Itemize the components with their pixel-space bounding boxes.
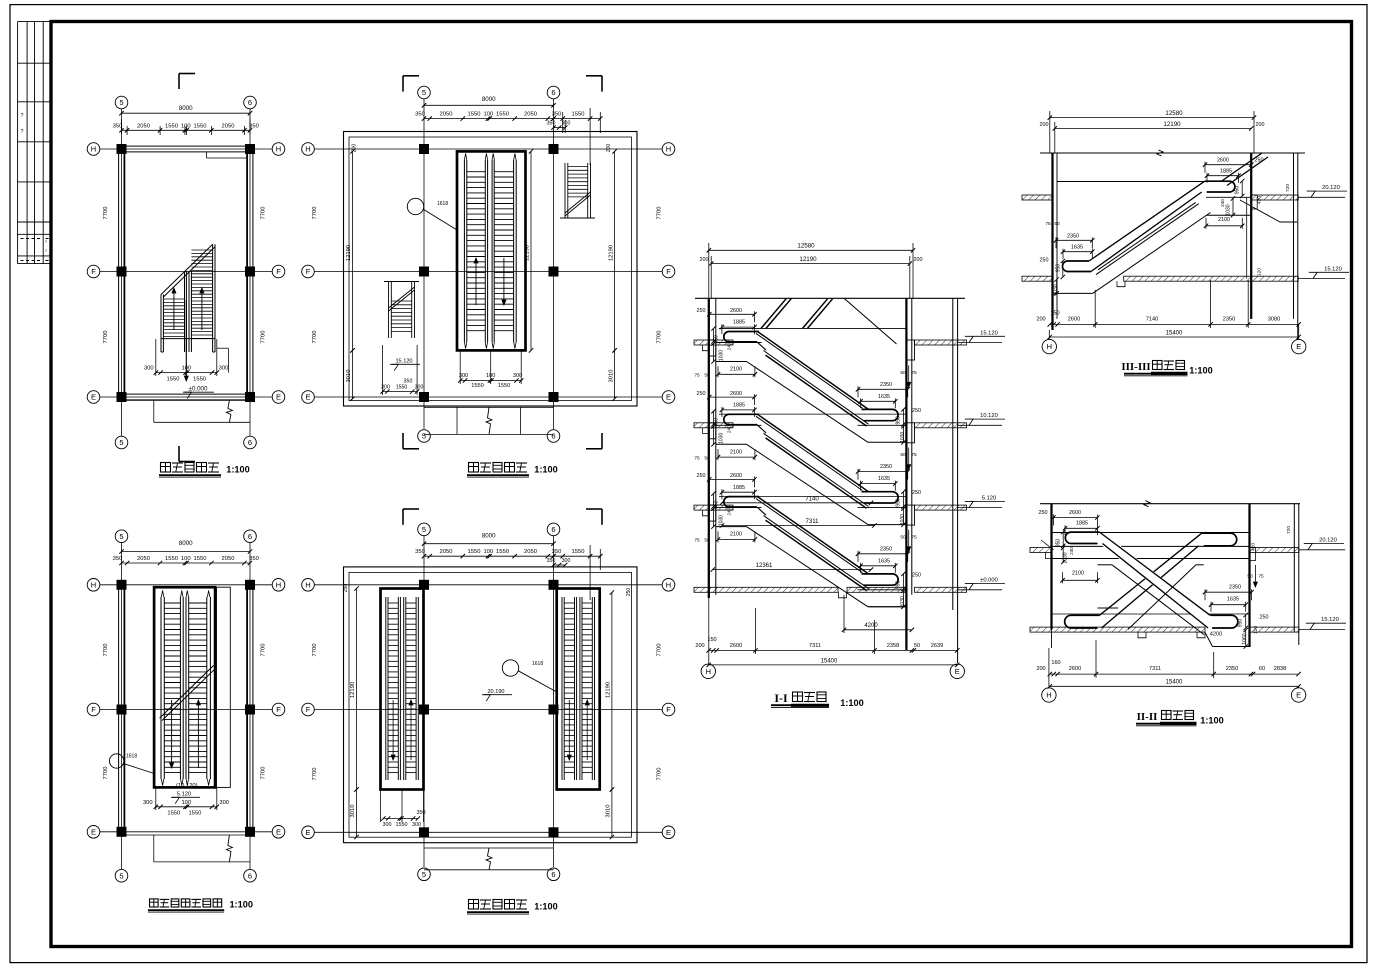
plan1 stair lower dim chain (156, 372, 217, 374)
I-I far right wall (952, 298, 954, 610)
svg-text:2838: 2838 (1274, 666, 1286, 672)
svg-text:20.190: 20.190 (487, 689, 504, 695)
II right wall (1248, 504, 1250, 647)
svg-text:2050: 2050 (440, 112, 453, 118)
svg-text:E: E (91, 393, 96, 402)
II loop upper-left (1065, 532, 1099, 543)
plan4 leader circle (407, 198, 423, 214)
svg-text:250: 250 (912, 408, 921, 414)
svg-text:H: H (305, 145, 310, 154)
plan5 left shaft lower dims (380, 790, 382, 823)
svg-text:5: 5 (422, 525, 426, 534)
svg-text:2050: 2050 (137, 556, 150, 562)
svg-text:100: 100 (181, 556, 191, 562)
svg-text:12190: 12190 (346, 245, 352, 261)
plan5 right shaft treads (564, 602, 574, 604)
svg-text:1550: 1550 (165, 556, 178, 562)
svg-text:250: 250 (697, 473, 706, 479)
escalator upper newel connector (757, 507, 766, 515)
svg-text:250: 250 (343, 584, 349, 593)
plan5 left escalator shaft (381, 589, 424, 790)
svg-text:2600: 2600 (730, 391, 742, 397)
plan23 escalator treads (164, 602, 180, 604)
svg-text:E: E (305, 828, 310, 837)
svg-text:7700: 7700 (261, 644, 267, 657)
svg-text:7700: 7700 (312, 768, 318, 781)
svg-text:1550: 1550 (194, 123, 207, 129)
svg-text:75: 75 (694, 373, 700, 379)
plan5 dim chain (424, 555, 554, 557)
svg-text:2100: 2100 (730, 532, 742, 538)
svg-text:200: 200 (1036, 317, 1045, 323)
I-I roof line (695, 297, 965, 299)
escalator upper handrail loop (724, 497, 759, 507)
svg-text:75: 75 (911, 534, 917, 540)
escalator upper newel connector (757, 425, 766, 433)
svg-text:720: 720 (1285, 184, 1291, 192)
plan4 bottom strip (424, 406, 554, 408)
II loop lower-right (1210, 615, 1238, 628)
svg-text:350: 350 (547, 558, 556, 564)
plan23 walls (118, 585, 120, 832)
svg-text:75: 75 (694, 538, 700, 544)
plan5 right shaft rails (561, 597, 563, 780)
plan4 shaft bottom dims (460, 380, 521, 382)
plan4 grid circles (418, 86, 431, 99)
plan1 stair cut lines (161, 244, 213, 294)
svg-text:7700: 7700 (103, 207, 109, 220)
svg-text:7700: 7700 (312, 331, 318, 344)
II far right wall (1293, 504, 1295, 632)
svg-text:7311: 7311 (1149, 666, 1161, 672)
svg-text:950: 950 (1056, 539, 1062, 548)
svg-text:2600: 2600 (1217, 157, 1229, 163)
plan4 grid line 6 (553, 99, 555, 429)
II guard line lower (1052, 613, 1250, 615)
svg-text:1618: 1618 (126, 754, 137, 760)
svg-text:250: 250 (1255, 157, 1264, 163)
svg-text:2050: 2050 (137, 123, 150, 129)
svg-text:F: F (276, 267, 281, 276)
svg-text:2100: 2100 (730, 449, 742, 455)
svg-text:E: E (276, 827, 281, 836)
svg-text:1550: 1550 (496, 112, 509, 118)
plan1 grid line 6 (249, 109, 251, 436)
svg-text:350: 350 (113, 123, 123, 129)
svg-text:E: E (666, 393, 671, 402)
plan1 stair bottom edge (161, 338, 215, 340)
svg-text:E: E (955, 667, 960, 676)
svg-text:2050: 2050 (440, 549, 453, 555)
svg-text:E: E (666, 828, 671, 837)
plan5 grid circles (418, 523, 431, 536)
svg-text:2600: 2600 (730, 308, 742, 314)
svg-text:1635: 1635 (1227, 597, 1239, 603)
svg-text:E: E (305, 393, 310, 402)
plan23 escalator rails (160, 597, 162, 779)
svg-text:20.120: 20.120 (1319, 538, 1337, 544)
svg-text:7700: 7700 (103, 644, 109, 657)
svg-text:F: F (91, 705, 96, 714)
svg-text:15400: 15400 (1166, 330, 1183, 336)
III escalator lower loop (1062, 261, 1091, 272)
svg-text:±0.000: ±0.000 (980, 578, 998, 584)
plan4 small stair top-right (564, 163, 566, 218)
svg-text:12361: 12361 (756, 563, 773, 569)
svg-text:1885: 1885 (1220, 168, 1232, 174)
svg-text:7700: 7700 (657, 768, 663, 781)
plan23 escalator shaft (154, 587, 215, 787)
svg-text:1885: 1885 (1076, 521, 1088, 527)
II pocket below 15.120 right (1205, 632, 1213, 646)
svg-text:±0.000: ±0.000 (189, 385, 208, 392)
plan23 grid line 5 (121, 543, 123, 869)
plan4 escalator rails (463, 160, 465, 342)
svg-text:200: 200 (606, 144, 612, 153)
svg-text:6: 6 (248, 871, 252, 880)
II escalator diagonal LR-UL (1102, 538, 1210, 622)
svg-text:7700: 7700 (657, 644, 663, 657)
svg-text:240: 240 (727, 507, 732, 515)
escalator floor edges (716, 507, 762, 509)
III floor slab 15.120 (1022, 276, 1053, 281)
svg-text:1:100: 1:100 (1200, 716, 1224, 726)
svg-text:950: 950 (1238, 619, 1244, 628)
I-I wall beam under slab (709, 505, 716, 521)
svg-text:100: 100 (483, 112, 493, 118)
svg-text:2050: 2050 (222, 556, 235, 562)
II left wall (1050, 504, 1052, 630)
svg-text:1885: 1885 (733, 485, 745, 491)
svg-text:350: 350 (249, 123, 259, 129)
I-I upper flight stubs (761, 298, 787, 328)
svg-text:2050: 2050 (524, 549, 537, 555)
svg-text:300: 300 (562, 558, 571, 564)
svg-text:250: 250 (912, 572, 921, 578)
plan5 grid lines H F E (315, 584, 663, 586)
svg-text:300: 300 (143, 800, 153, 806)
plan4 columns (419, 144, 429, 154)
II loop lower-left (1065, 615, 1100, 628)
plan23 grid line 6 (249, 543, 251, 869)
svg-text:1550: 1550 (572, 112, 585, 118)
plan5 section cut marks (402, 509, 404, 525)
plan1 dim chain 350/2050/1550/100/1550/2050/350 (122, 129, 251, 131)
svg-text:50: 50 (914, 643, 920, 649)
svg-text:6: 6 (551, 432, 555, 441)
plan1 columns (117, 144, 127, 154)
I-I wall beam under slab (709, 340, 716, 356)
plan5 bottom strip (424, 847, 554, 849)
svg-text:50: 50 (704, 373, 710, 379)
plan23 lower dim chain (156, 806, 217, 808)
svg-text:300: 300 (383, 822, 392, 828)
svg-text:250: 250 (697, 391, 706, 397)
svg-text:300: 300 (412, 822, 421, 828)
svg-text:2350: 2350 (1229, 585, 1241, 591)
svg-text:2050: 2050 (222, 123, 235, 129)
svg-text:1550: 1550 (471, 383, 483, 389)
plan4 grid line 5 (423, 99, 425, 429)
plan1 grid circles (115, 96, 128, 109)
svg-text:950: 950 (1055, 264, 1061, 273)
II level flags (1299, 549, 1345, 551)
plan5 title (469, 900, 479, 910)
I-I left wall clip (703, 510, 709, 516)
II escalator diagonal LL-UR (1100, 533, 1202, 615)
svg-text:250: 250 (1039, 510, 1048, 516)
plan1 grid line F (100, 271, 272, 273)
svg-text:300: 300 (144, 366, 154, 372)
svg-text:7700: 7700 (312, 207, 318, 220)
svg-text:5.120: 5.120 (982, 495, 997, 501)
svg-text:8000: 8000 (482, 533, 496, 540)
svg-text:150: 150 (1050, 311, 1059, 317)
plan4 escalator rail tips (464, 154, 466, 161)
svg-text:1060: 1060 (1242, 633, 1248, 644)
II wall extension to circle (1048, 648, 1050, 688)
plan1 stair treads right run (191, 249, 212, 251)
plan23 leader circle (109, 754, 123, 768)
svg-text:1550: 1550 (165, 123, 178, 129)
svg-text:120: 120 (1253, 626, 1259, 634)
svg-text:15.120: 15.120 (395, 358, 412, 364)
svg-text:7700: 7700 (312, 644, 318, 657)
III grid circles (1042, 339, 1056, 353)
escalator floor edges (716, 342, 762, 344)
plan4 title (469, 463, 479, 473)
svg-text:H: H (1047, 342, 1052, 351)
svg-text:1550: 1550 (167, 811, 180, 817)
svg-text:950: 950 (896, 498, 902, 507)
svg-text:6: 6 (551, 870, 555, 879)
III floor slab 20.120 (1022, 195, 1053, 200)
svg-text:50: 50 (900, 370, 906, 376)
I-I wall beam under slab (709, 423, 716, 439)
svg-text:12190: 12190 (608, 245, 614, 261)
plan23 cut lines (160, 665, 214, 718)
svg-text:200: 200 (695, 643, 704, 649)
plan1 section cut mark bottom (178, 446, 180, 462)
svg-text:100: 100 (483, 549, 493, 555)
svg-text:1550: 1550 (468, 549, 481, 555)
svg-text:6: 6 (551, 88, 555, 97)
svg-text:160: 160 (1051, 660, 1060, 666)
svg-text:H: H (706, 667, 711, 676)
svg-text:1:100: 1:100 (534, 465, 558, 475)
svg-text:200: 200 (700, 257, 709, 263)
svg-text:420: 420 (1257, 196, 1263, 204)
svg-text:2600: 2600 (1068, 317, 1080, 323)
svg-text:2350: 2350 (880, 464, 892, 470)
plan23 bottom strip (122, 834, 251, 836)
svg-text:15.120: 15.120 (980, 330, 998, 336)
svg-text:1550: 1550 (468, 112, 481, 118)
svg-text:5: 5 (422, 432, 426, 441)
plan23 escalator arrows (171, 700, 173, 768)
svg-text:H: H (666, 580, 671, 589)
III level flags (1298, 196, 1345, 198)
plan1 interior wall corner (206, 152, 208, 158)
plan4 stair lower dims (383, 391, 418, 393)
plan1 title (161, 463, 171, 473)
plan1 walls (118, 149, 120, 397)
svg-text:1550: 1550 (498, 383, 510, 389)
escalator truss soffit (716, 361, 747, 363)
svg-text:3010: 3010 (350, 805, 356, 818)
svg-text:2350: 2350 (1223, 317, 1235, 323)
svg-text:1635: 1635 (878, 394, 890, 400)
plan1 grid line E (100, 396, 272, 398)
escalator diagonal band (758, 497, 869, 574)
escalator lower handrail loop (862, 492, 899, 503)
plan1 stair treads left run (163, 298, 184, 300)
svg-text:350: 350 (552, 112, 562, 118)
svg-text:1618: 1618 (437, 201, 448, 207)
svg-text:2100: 2100 (1218, 217, 1230, 223)
escalator diagonal band (758, 414, 869, 491)
svg-text:2050: 2050 (524, 112, 537, 118)
svg-text:5: 5 (422, 88, 426, 97)
svg-text:2358: 2358 (887, 643, 899, 649)
II guard line upper (1052, 532, 1250, 534)
svg-text:10.120: 10.120 (980, 413, 998, 419)
svg-text:2350: 2350 (880, 546, 892, 552)
plan23 dim chain (122, 562, 251, 564)
svg-text:50: 50 (704, 455, 710, 461)
III upper landing floor edge (1206, 196, 1251, 198)
plan1 stair flights (160, 295, 162, 353)
svg-text:2600: 2600 (1069, 510, 1081, 516)
plan4 grid lines H F E (315, 148, 663, 150)
svg-text:950: 950 (896, 416, 902, 425)
svg-text:15.120: 15.120 (1324, 266, 1342, 272)
plan4 outer walls (344, 132, 638, 407)
svg-text:1030: 1030 (719, 350, 725, 361)
svg-text:350: 350 (547, 121, 556, 127)
svg-text:240: 240 (1069, 547, 1074, 555)
svg-text:5: 5 (119, 871, 123, 880)
svg-text:1:100: 1:100 (226, 465, 250, 475)
svg-text:1885: 1885 (733, 403, 745, 409)
svg-text:7700: 7700 (657, 331, 663, 344)
svg-text:2100: 2100 (1072, 571, 1084, 577)
svg-text:1030: 1030 (719, 433, 725, 444)
svg-text:H: H (276, 145, 281, 154)
svg-text:F: F (666, 705, 671, 714)
I-I guard lines mid floors (719, 413, 906, 415)
plan23 title (150, 899, 159, 907)
svg-text:E: E (1296, 691, 1301, 700)
svg-text:1635: 1635 (878, 476, 890, 482)
plan5 right shaft arrows (568, 700, 570, 760)
plan4 small stair bottom-left (388, 282, 390, 339)
svg-text:6: 6 (248, 98, 252, 107)
plan4 escalator treads (467, 171, 486, 173)
plan5 grid line 5 (423, 536, 425, 867)
svg-text:720: 720 (1286, 526, 1292, 534)
escalator truss soffit (716, 443, 747, 445)
svg-text:2600: 2600 (1069, 666, 1081, 672)
svg-text:240: 240 (1220, 199, 1225, 207)
svg-text:1030: 1030 (1225, 204, 1231, 215)
svg-text:3080: 3080 (1268, 317, 1280, 323)
svg-text:III-III: III-III (1121, 361, 1150, 373)
svg-text:950: 950 (896, 580, 902, 589)
svg-text:350: 350 (417, 810, 426, 816)
svg-text:H: H (1046, 691, 1051, 700)
svg-text:100: 100 (181, 123, 191, 129)
svg-text:1550: 1550 (396, 385, 408, 391)
svg-text:2600: 2600 (730, 473, 742, 479)
svg-text:50: 50 (704, 538, 710, 544)
svg-text:5: 5 (119, 532, 123, 541)
I-I guard line top (719, 327, 906, 329)
plan5 left shaft treads (388, 602, 398, 604)
III roof line (1040, 152, 1305, 154)
III right wall (1250, 153, 1252, 319)
III bottom dim chain (1050, 323, 1299, 325)
svg-text:(10.120): (10.120) (176, 783, 198, 789)
svg-text:E: E (1296, 342, 1301, 351)
svg-text:300: 300 (415, 385, 424, 391)
svg-text:5.120: 5.120 (177, 792, 192, 798)
svg-text:75: 75 (911, 370, 917, 376)
svg-text:50: 50 (1247, 574, 1253, 580)
svg-text:7700: 7700 (261, 767, 267, 780)
plan1 grid line 5 (121, 109, 123, 436)
svg-text:12580: 12580 (797, 243, 815, 250)
svg-text:7700: 7700 (103, 331, 109, 344)
svg-text:300: 300 (219, 800, 229, 806)
svg-text:12190: 12190 (606, 682, 612, 698)
svg-text:350: 350 (415, 549, 425, 555)
svg-text:3010: 3010 (346, 370, 352, 383)
II slab 20.120 stubs (1030, 548, 1052, 553)
plan1 stair arrows (173, 288, 175, 330)
svg-text:250: 250 (1040, 258, 1049, 264)
svg-text:200: 200 (1036, 666, 1045, 672)
plan23 grid circles (115, 530, 128, 543)
svg-text:100: 100 (181, 366, 191, 372)
svg-text:350: 350 (404, 379, 413, 385)
svg-text:H: H (91, 580, 96, 589)
II slab clips (1197, 632, 1205, 638)
III left wall (1051, 153, 1053, 330)
svg-text:1550: 1550 (496, 549, 509, 555)
I-I floor slabs (694, 340, 733, 345)
escalator upper handrail loop (724, 332, 759, 342)
svg-text:1:100: 1:100 (840, 698, 864, 708)
plan5 right extra chain (554, 555, 601, 557)
svg-text:4200: 4200 (864, 623, 878, 629)
svg-text:1550: 1550 (194, 556, 207, 562)
svg-text:II-II: II-II (1137, 711, 1158, 723)
plan1 section cut mark top (178, 74, 180, 90)
I-I ground pocket under last flight (869, 606, 907, 608)
svg-text:250: 250 (912, 490, 921, 496)
svg-text:950: 950 (1235, 186, 1241, 195)
svg-text:E: E (276, 393, 281, 402)
svg-text:2350: 2350 (1226, 666, 1238, 672)
plan1 grid line H (100, 148, 272, 150)
escalator floor edges (716, 424, 762, 426)
escalator upper newel connector (757, 342, 766, 350)
svg-text:200: 200 (1040, 122, 1049, 128)
svg-text:1618: 1618 (532, 661, 543, 667)
svg-text:7700: 7700 (261, 207, 267, 220)
svg-text:50: 50 (900, 534, 906, 540)
